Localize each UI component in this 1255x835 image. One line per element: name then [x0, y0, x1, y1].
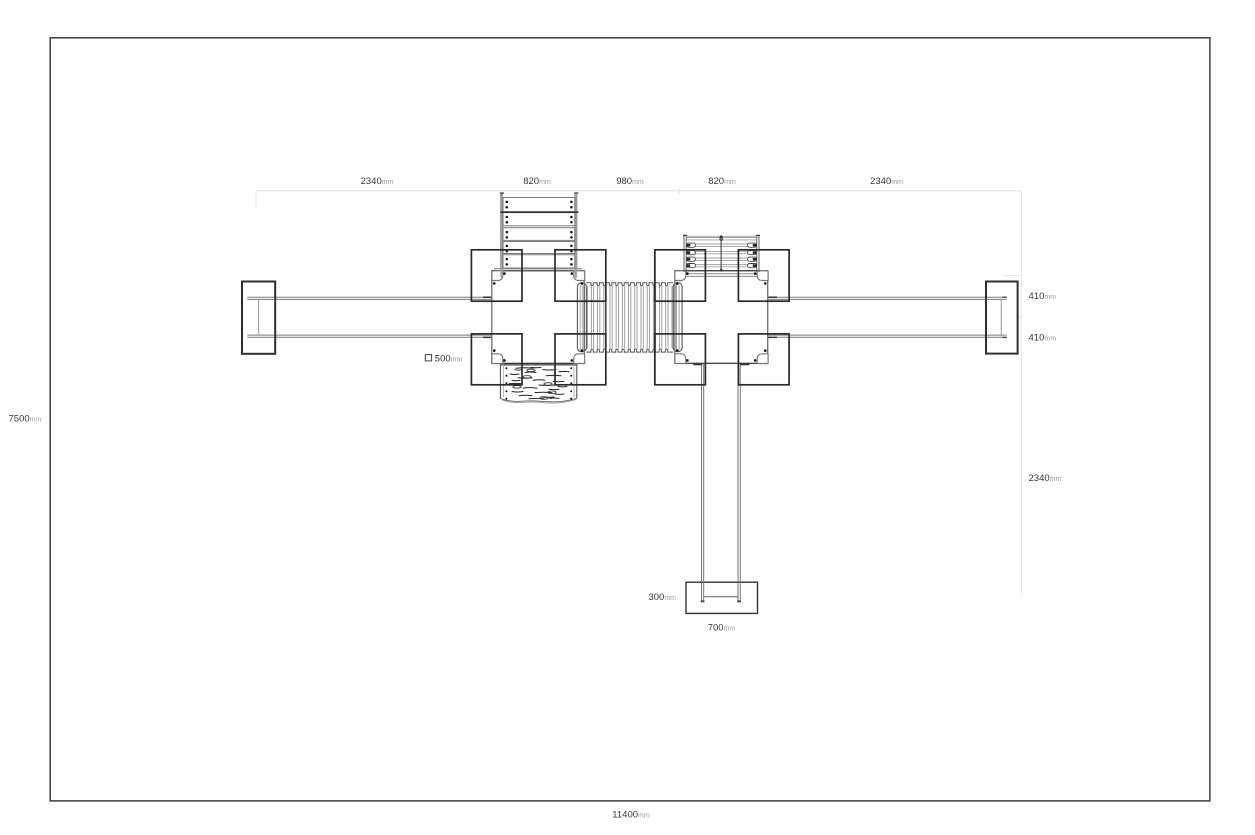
beam end caps at right post: [1003, 297, 1007, 337]
left deck top edge detail: [494, 267, 582, 269]
right deck top-right post: [757, 271, 768, 281]
svg-text:11400mm: 11400mm: [612, 809, 650, 820]
left deck top-right post: [574, 271, 585, 281]
svg-text:2340mm: 2340mm: [870, 176, 903, 187]
post size legend square: [425, 355, 431, 361]
deck top and bottom edges emphasis: [492, 271, 768, 364]
climber rail ends over posts: [684, 269, 759, 272]
left deck bottom-left post: [492, 354, 503, 364]
svg-text:2340mm: 2340mm: [1029, 473, 1062, 484]
svg-text:500mm: 500mm: [435, 354, 463, 365]
right dimension guide line: [1003, 191, 1022, 595]
horizontal bar climber on right tower: [683, 235, 760, 276]
top dimension guide line: [256, 189, 1022, 208]
right deck bottom-left post: [675, 354, 686, 364]
right deck bottom-right post: [757, 354, 768, 364]
svg-text:7500mm: 7500mm: [9, 413, 42, 424]
svg-text:2340mm: 2340mm: [361, 176, 394, 187]
svg-text:820mm: 820mm: [523, 176, 551, 187]
crawl tube bottom corrugated edge: [586, 349, 673, 352]
left swing beam pair and right swing beam pair: [247, 297, 1006, 337]
crawl tube body fill: [577, 283, 682, 353]
right tower top-left corner square: [655, 250, 706, 301]
access ladder on left tower: [500, 193, 579, 278]
left tower bottom-left corner square: [471, 334, 522, 385]
left swing end post: [242, 282, 275, 354]
left tower right side panel edge: [605, 250, 607, 385]
left deck bottom-right post: [574, 354, 585, 364]
ladder rail ends over posts: [502, 270, 576, 278]
left tower deck: [492, 271, 585, 364]
right tower bottom-right corner square: [738, 334, 789, 385]
right deck edge over tube: [674, 283, 676, 353]
left deck edge over tube: [583, 283, 585, 353]
textured climbing ramp on left tower: [500, 364, 577, 403]
right tower bottom-left corner square: [655, 334, 706, 385]
svg-text:410mm: 410mm: [1029, 291, 1057, 302]
deck corner screw dots: [493, 272, 767, 361]
svg-text:300mm: 300mm: [648, 592, 676, 603]
beam connector in left end post: [258, 299, 260, 335]
left tower bottom-right corner square: [555, 334, 606, 385]
left tower top-right corner square: [555, 250, 606, 301]
svg-text:700mm: 700mm: [708, 622, 736, 633]
beam mounting brackets at towers: [483, 297, 777, 337]
right swing end post: [986, 282, 1018, 354]
svg-text:410mm: 410mm: [1029, 332, 1057, 343]
right tower left side panel edge: [654, 250, 656, 385]
left deck top-left post: [492, 271, 503, 281]
crawl tube left end cap: [577, 283, 586, 352]
beam connector in right end post: [1000, 299, 1002, 335]
crawl tube top corrugated edge: [586, 283, 673, 286]
left tower top-left corner square: [471, 250, 522, 301]
right tower top-right corner square: [738, 250, 789, 301]
svg-text:820mm: 820mm: [708, 176, 736, 187]
right deck top-left post: [675, 271, 686, 281]
crawl tube right end cap: [673, 283, 682, 352]
crawl tube rib lines: [585, 286, 674, 349]
slide from right tower with end box: [686, 364, 758, 614]
svg-text:980mm: 980mm: [616, 176, 644, 187]
right tower deck: [675, 271, 768, 364]
